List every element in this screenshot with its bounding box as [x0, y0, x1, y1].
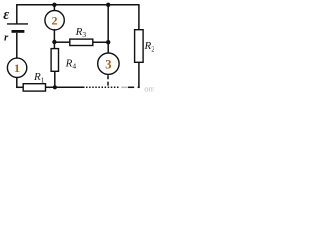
svg-text:ε: ε: [3, 7, 9, 23]
node C (junction on right-middle branch): [106, 40, 110, 44]
wire: meter 3 to bottom bus (dashed): [107, 75, 109, 87]
wire: left branch upper (corner to battery + plate): [16, 5, 18, 24]
svg-text:r: r: [4, 31, 9, 43]
svg-text:3: 3: [105, 57, 111, 71]
svg-text:1: 1: [14, 61, 20, 75]
wire: meter 2 to node B: [53, 29, 55, 43]
wire: right branch upper (corner to R2): [138, 5, 140, 30]
resistor R3: [70, 39, 93, 45]
node B (junction at R3/R4 split): [52, 40, 56, 44]
resistor R2: [135, 30, 144, 63]
wire: top bus to node C: [107, 5, 109, 42]
resistor R1: [23, 84, 45, 91]
wire: battery - plate to meter 1: [16, 33, 18, 59]
wire: R4 to bottom bus: [54, 71, 56, 88]
wire: node B to R4: [53, 42, 55, 49]
wire: node A to meter 2: [53, 5, 55, 12]
wire: R1 to node D: [46, 86, 85, 88]
battery ε r : short thick plate: [12, 30, 25, 33]
meter 3 (circle): [98, 53, 119, 74]
battery ε r : long plate: [7, 23, 28, 25]
node D (junction at R4 bottom): [53, 85, 57, 89]
svg-text:om: om: [144, 83, 154, 93]
wire: node B to R3: [54, 41, 69, 43]
svg-text:2: 2: [52, 14, 58, 28]
wire: node C to meter 3: [107, 42, 109, 53]
wire: R2 to bottom-right corner: [138, 62, 140, 88]
meter 1 (circle): [7, 58, 26, 77]
wire: top bus: [16, 4, 140, 6]
node E (top junction of right-middle branch): [106, 3, 110, 7]
node A (top junction of meter 2 branch): [52, 3, 56, 7]
wire: bottom bus dashed right section: [86, 86, 120, 88]
meter 2 (circle): [45, 11, 64, 30]
wire: R3 to node C: [93, 41, 109, 43]
resistor R4: [51, 49, 58, 72]
wire: bottom bus left stub: [16, 86, 23, 88]
wire: meter 1 to bottom-left corner: [16, 77, 18, 88]
